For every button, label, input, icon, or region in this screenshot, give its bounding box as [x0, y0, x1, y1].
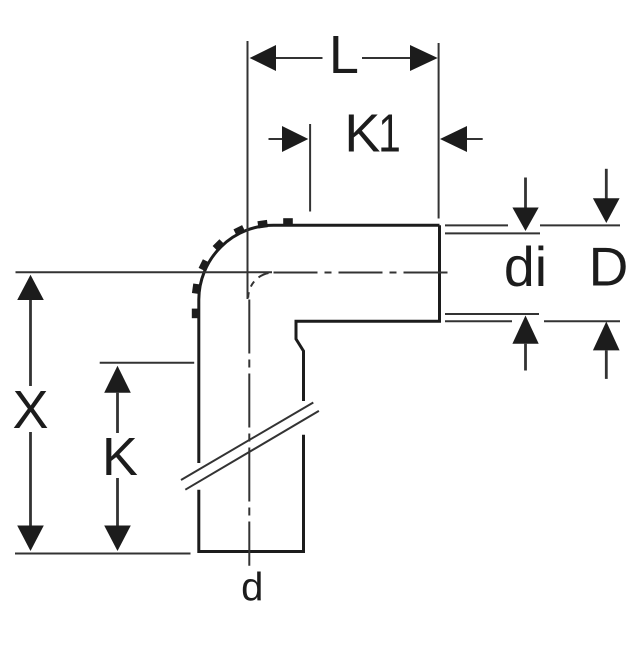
D bottom arrow tail	[605, 350, 608, 379]
L left arrowhead	[250, 45, 276, 71]
di top arrow tail	[524, 178, 527, 209]
pipe elbow outer outline (top edge, bend arc, left edge upper part)	[199, 225, 440, 463]
tooth 4	[213, 239, 225, 251]
di top reference line	[445, 232, 540, 234]
tooth 7	[192, 309, 199, 319]
K1 left arrowhead	[282, 126, 308, 152]
K dimension line lower tail	[116, 478, 119, 526]
di bottom arrowhead	[512, 316, 538, 344]
D top arrowhead	[593, 198, 620, 223]
di bottom reference line	[445, 313, 539, 315]
D bottom arrowhead	[593, 322, 620, 351]
K up arrowhead	[104, 366, 131, 393]
tooth 1	[283, 218, 293, 225]
K1 left arrow tail	[269, 138, 284, 140]
break symbol line 1	[181, 403, 313, 481]
X dimension line upper tail	[29, 300, 32, 386]
tooth 5	[199, 259, 210, 271]
X / K bottom extension line	[15, 553, 191, 555]
D top arrow tail	[605, 169, 608, 199]
di bottom arrow tail	[524, 344, 527, 371]
K1 right arrowhead	[440, 126, 467, 152]
svg-text:1: 1	[378, 104, 401, 164]
X down arrowhead	[17, 526, 44, 552]
L / K1 right extension line	[438, 43, 440, 219]
K dimension line upper tail	[116, 393, 119, 433]
svg-text:K: K	[102, 427, 138, 487]
K top extension line	[100, 362, 195, 364]
tooth 2	[257, 220, 268, 229]
D bottom reference line	[445, 320, 620, 322]
bend centerline arc (dash-dot)	[248, 273, 273, 298]
svg-text:K: K	[344, 104, 380, 164]
svg-text:d: d	[241, 565, 263, 609]
L dimension line	[276, 57, 410, 59]
svg-text:D: D	[589, 236, 629, 298]
K1 extension line	[309, 124, 311, 212]
L dimension left extension line (pipe axis)	[247, 41, 249, 299]
tooth 6	[192, 283, 201, 294]
D top reference line	[445, 224, 620, 226]
K down arrowhead	[104, 526, 131, 552]
svg-text:X: X	[12, 380, 48, 440]
vertical centerline (dash-dot) of vertical pipe	[248, 300, 250, 566]
K1 right arrow tail	[467, 138, 483, 140]
pipe left edge lower part, bottom edge, right edge lower part	[199, 435, 304, 552]
break symbol line 2	[185, 411, 319, 490]
rib teeth on bend (7 squares)	[192, 218, 293, 318]
X top extension line	[16, 271, 273, 273]
L right arrowhead	[410, 45, 438, 71]
svg-text:L: L	[329, 25, 359, 85]
di top arrowhead	[512, 208, 538, 232]
X dimension line lower tail	[29, 432, 32, 526]
X up arrowhead	[17, 275, 44, 300]
tooth 3	[233, 225, 245, 236]
svg-text:di: di	[504, 236, 547, 298]
horizontal centerline (dash-dot) of horizontal pipe	[274, 272, 453, 274]
pipe right edge upper part, socket chamfer, inner corner, bottom edge of horizontal pipe, right end	[296, 225, 440, 401]
